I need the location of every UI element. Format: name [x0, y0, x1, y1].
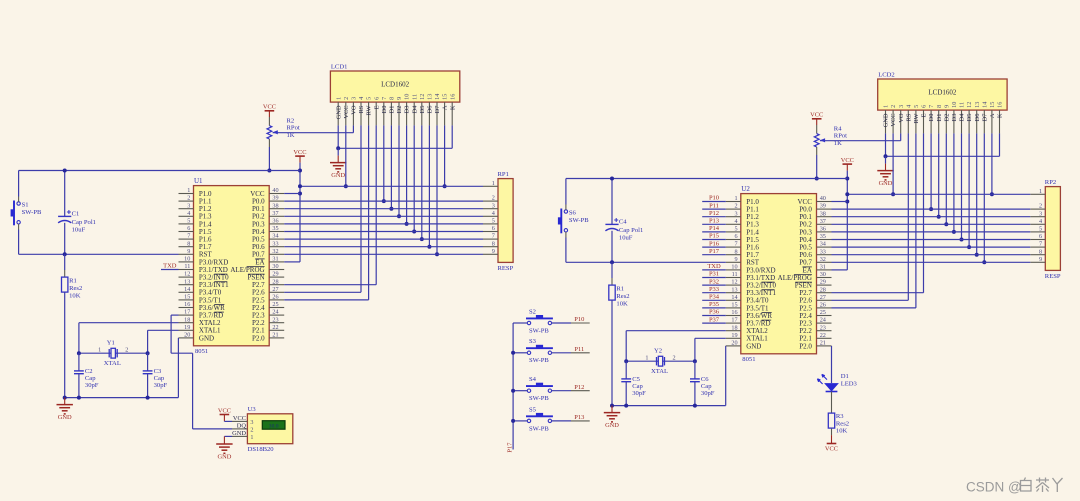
- U2 pin 8 P1.7: [726, 248, 760, 259]
- net label P10 on S2: [552, 316, 590, 323]
- U1 pin 26 P2.5: [252, 294, 284, 305]
- svg-text:16: 16: [449, 94, 456, 100]
- junction column S4: [511, 389, 515, 393]
- svg-text:Cap Pol1: Cap Pol1: [619, 227, 643, 234]
- svg-text:3: 3: [492, 202, 495, 209]
- LCD2 pin 4 RS: [905, 105, 912, 134]
- LED D1 LED3: [817, 373, 857, 392]
- wire VCC to pin 40: [832, 201, 848, 203]
- svg-text:U3: U3: [248, 406, 257, 413]
- wire R2 bottom to rail: [268, 147, 270, 171]
- U2 pin 26 P2.5: [799, 302, 831, 313]
- junction vcc column / top rail: [298, 169, 302, 173]
- junction D1/P0.1: [937, 215, 941, 219]
- junction D4/P0.4: [960, 238, 964, 242]
- svg-text:17: 17: [184, 309, 190, 316]
- svg-text:26: 26: [820, 302, 826, 309]
- wire LCD backlight K pin16 column: [999, 133, 1001, 156]
- net label P13 on S5: [552, 414, 590, 421]
- svg-text:GND: GND: [605, 422, 619, 429]
- svg-text:3: 3: [351, 97, 358, 100]
- resistor R1 Res2 10K: [609, 262, 630, 307]
- junction D2/P0.2: [397, 214, 401, 218]
- U1 pin 15 P3.5/T1: [179, 294, 222, 305]
- RP2 pin 3: [1030, 210, 1045, 217]
- svg-text:25: 25: [272, 301, 278, 308]
- U1 pin 19 XTAL1: [179, 324, 222, 335]
- svg-text:3: 3: [1039, 210, 1042, 217]
- junction D4/P0.4: [412, 230, 416, 234]
- U1 pin 29 PSEN: [247, 271, 284, 282]
- svg-text:VCC: VCC: [890, 114, 897, 127]
- svg-text:15: 15: [184, 294, 190, 301]
- svg-text:R3: R3: [836, 413, 844, 420]
- wire reset rail: [566, 261, 726, 263]
- junction vcc column / rp rail: [845, 192, 849, 196]
- svg-text:TXD: TXD: [707, 263, 721, 270]
- potentiometer R2 RPot 1K: [267, 117, 300, 147]
- U2 pin 4 P1.3: [726, 218, 760, 229]
- U2 pin 15 P3.5/T1: [726, 302, 769, 313]
- svg-text:GND: GND: [746, 342, 761, 350]
- svg-text:1K: 1K: [287, 132, 295, 139]
- svg-text:36: 36: [820, 226, 826, 233]
- junction vcc column / pin40: [845, 200, 849, 204]
- RP2 pin 7: [1030, 241, 1045, 248]
- svg-text:8: 8: [389, 97, 396, 100]
- svg-text:34: 34: [272, 233, 278, 240]
- svg-text:RW: RW: [913, 113, 920, 124]
- svg-text:7: 7: [928, 105, 935, 108]
- svg-text:7: 7: [381, 97, 388, 100]
- wire LCD A pin15 column: [991, 133, 993, 194]
- svg-text:E: E: [921, 113, 928, 117]
- junction D3/P0.3: [952, 230, 956, 234]
- crystal Y1 XTAL: [98, 340, 128, 367]
- U2 pin 39 P0.0: [799, 203, 831, 214]
- wire LCD D5 column: [421, 125, 423, 239]
- U1 pin 36 P0.3: [252, 218, 284, 229]
- net label TXD on U2 pin 10: [702, 263, 726, 270]
- svg-text:20: 20: [731, 340, 737, 347]
- svg-text:24: 24: [820, 317, 826, 324]
- junction ground rail left: [610, 404, 614, 408]
- wire column to S2: [513, 322, 527, 324]
- svg-text:30pF: 30pF: [154, 382, 168, 389]
- net label P32 on U2 pin 12: [702, 278, 726, 285]
- svg-text:RESP: RESP: [498, 265, 514, 272]
- svg-text:Y2: Y2: [654, 348, 662, 355]
- svg-text:12: 12: [966, 102, 973, 108]
- svg-text:5: 5: [913, 105, 920, 108]
- junction at LCD GND column: [336, 146, 340, 150]
- svg-text:12: 12: [731, 279, 737, 286]
- svg-text:4: 4: [187, 210, 190, 217]
- junction crystal right: [146, 351, 150, 355]
- net label P34 on U2 pin 14: [702, 294, 726, 301]
- U1 pin 7 P1.6: [179, 233, 213, 244]
- svg-text:34: 34: [820, 241, 826, 248]
- svg-text:U1: U1: [194, 177, 203, 185]
- switch S5 SW-PB: [526, 406, 553, 432]
- svg-text:21: 21: [272, 332, 278, 339]
- U3 pin 2 DQ: [232, 422, 253, 433]
- svg-text:2: 2: [250, 426, 253, 433]
- U2 pin 29 PSEN: [795, 279, 832, 290]
- svg-text:C4: C4: [619, 219, 627, 226]
- svg-text:D1: D1: [841, 373, 849, 380]
- wire LCD D1 column: [938, 133, 940, 216]
- wire P0.6 row to resistor pack: [832, 254, 1031, 256]
- RP2 pin 5: [1030, 226, 1045, 233]
- junction cap B / ground rail: [693, 404, 697, 408]
- svg-text:16: 16: [731, 309, 737, 316]
- svg-text:6: 6: [187, 225, 190, 232]
- junction cap B / ground rail: [146, 396, 150, 400]
- svg-text:1: 1: [645, 355, 648, 362]
- wire LCD RS pin4 column to P2.6: [360, 125, 362, 292]
- RP2 pin 9: [1030, 256, 1045, 263]
- U2 pin 34 P0.5: [799, 241, 831, 252]
- potentiometer R4 RPot 1K: [814, 125, 847, 155]
- LCD2 pin 14 D7: [981, 102, 988, 134]
- junction VCC column / rail: [344, 184, 348, 188]
- net label P36 on U2 pin 16: [702, 309, 726, 316]
- svg-text:25: 25: [820, 309, 826, 316]
- svg-text:P13: P13: [709, 218, 719, 225]
- svg-text:1K: 1K: [834, 140, 842, 147]
- junction cap/reset rail: [63, 252, 67, 256]
- svg-text:R4: R4: [834, 126, 842, 133]
- svg-text:D6: D6: [427, 106, 434, 114]
- U1 pin 1 P1.0: [179, 187, 213, 198]
- wire LCD RW pin5 column to P2.5: [368, 125, 370, 300]
- svg-text:D3: D3: [951, 114, 958, 122]
- U2 pin 1 P1.0: [726, 195, 760, 206]
- svg-text:4: 4: [1039, 218, 1042, 225]
- wire LCD D4 column: [961, 133, 963, 239]
- svg-text:8: 8: [936, 105, 943, 108]
- svg-text:23: 23: [272, 316, 278, 323]
- op-amp-style MCU U2 8051: [741, 185, 817, 363]
- svg-text:40: 40: [820, 195, 826, 202]
- svg-text:10: 10: [404, 94, 411, 100]
- U1 pin 21 P2.0: [252, 332, 284, 343]
- wire VCC column: [299, 171, 301, 262]
- U2 pin 10 P3.0/RXD: [726, 264, 776, 275]
- U1 pin 20 GND: [179, 332, 215, 343]
- svg-text:C3: C3: [154, 368, 162, 375]
- U1 pin 2 P1.1: [179, 195, 213, 206]
- svg-text:13: 13: [184, 278, 190, 285]
- U1 pin 30 ALE/PROG: [230, 263, 284, 274]
- svg-text:30pF: 30pF: [632, 390, 646, 397]
- svg-text:LCD1602: LCD1602: [381, 81, 410, 89]
- U2 pin 6 P1.5: [726, 233, 760, 244]
- temperature sensor U3 DS18B20: [247, 406, 292, 453]
- U3 pin 3 VCC: [232, 415, 253, 426]
- wire VCC rail to resistor pack pin1: [847, 193, 1030, 195]
- svg-text:S6: S6: [569, 209, 577, 216]
- svg-text:23: 23: [820, 324, 826, 331]
- svg-text:8051: 8051: [742, 356, 755, 363]
- net label P35 on U2 pin 15: [702, 301, 726, 308]
- wire P0.1 row to resistor pack: [832, 216, 1031, 218]
- svg-text:3: 3: [898, 105, 905, 108]
- LCD1 pin 2 VCC: [343, 97, 350, 126]
- svg-text:10K: 10K: [616, 300, 628, 307]
- svg-text:P15: P15: [709, 233, 719, 240]
- net label P33 on U2 pin 13: [702, 286, 726, 293]
- svg-text:29: 29: [820, 279, 826, 286]
- LCD1 pin 1 GND: [335, 97, 342, 126]
- junction D1/P0.1: [389, 207, 393, 211]
- wire VO to potentiometer wiper: [820, 140, 901, 142]
- wire column to S3: [513, 352, 527, 354]
- svg-text:1: 1: [1039, 188, 1042, 195]
- LCD2 pin 11 D4: [959, 102, 966, 133]
- U2 pin 5 P1.4: [726, 226, 760, 237]
- svg-text:11: 11: [184, 263, 190, 270]
- svg-text:RP2: RP2: [1045, 179, 1056, 186]
- svg-text:39: 39: [820, 203, 826, 210]
- RP1 pin 6: [483, 225, 498, 232]
- svg-text:S3: S3: [529, 338, 537, 345]
- ground symbol for U3: [216, 436, 232, 460]
- svg-text:1: 1: [735, 195, 738, 202]
- svg-text:11: 11: [959, 102, 966, 108]
- svg-text:K: K: [997, 113, 1004, 118]
- LCD1 pin 10 D3: [404, 94, 411, 126]
- LCD1 pin 12 D5: [419, 94, 426, 126]
- svg-text:18: 18: [731, 324, 737, 331]
- U1 pin 8 P1.7: [179, 240, 213, 251]
- junction at LCD GND column: [884, 154, 888, 158]
- svg-text:8: 8: [492, 240, 495, 247]
- wire P0.3 row to resistor pack: [284, 223, 483, 225]
- power VCC above R4: [816, 119, 818, 125]
- U2 pin 36 P0.3: [799, 226, 831, 237]
- svg-text:GND: GND: [883, 113, 890, 127]
- switch S4 SW-PB: [526, 376, 553, 402]
- svg-text:D1: D1: [936, 114, 943, 122]
- LCD1 pin 4 RS: [358, 97, 365, 126]
- LCD1 pin 7 D0: [381, 97, 388, 126]
- svg-text:5: 5: [492, 218, 495, 225]
- svg-text:30.0: 30.0: [269, 423, 279, 429]
- U2 pin 40 VCC: [797, 195, 831, 206]
- wire LCD D0 column: [930, 133, 932, 209]
- svg-text:32: 32: [820, 256, 826, 263]
- U2 pin 28 P2.7: [799, 286, 831, 297]
- capacitor C5 Cap 30pF: [621, 361, 646, 405]
- svg-text:9: 9: [1039, 256, 1042, 263]
- svg-text:10uF: 10uF: [72, 227, 86, 234]
- svg-text:6: 6: [492, 225, 495, 232]
- LCD2 pin 16 K: [997, 102, 1004, 134]
- svg-text:C1: C1: [72, 211, 80, 218]
- svg-text:24: 24: [272, 309, 278, 316]
- svg-text:4: 4: [358, 97, 365, 100]
- net label P14 on U2 pin 5: [702, 225, 726, 232]
- U1 pin 28 P2.7: [252, 278, 284, 289]
- svg-text:19: 19: [731, 332, 737, 339]
- U1 pin 22 P2.1: [252, 324, 284, 335]
- wire P0.4 row to resistor pack: [284, 231, 483, 233]
- wire XTAL2 to crystal rail: [79, 322, 179, 324]
- junction A column / rail: [443, 184, 447, 188]
- wire rail to S6: [565, 179, 567, 205]
- U2 pin 25 P2.4: [799, 309, 831, 320]
- U1 pin 17 P3.7/RD: [179, 309, 224, 320]
- switch S3 SW-PB: [526, 338, 553, 364]
- svg-text:10uF: 10uF: [619, 235, 633, 242]
- U2 pin 12 P3.2/INT0: [726, 279, 777, 290]
- wire P2.0 to LED: [831, 346, 833, 383]
- wire ground rail: [65, 397, 179, 399]
- U1 pin 23 P2.2: [252, 316, 284, 327]
- svg-text:7: 7: [492, 233, 495, 240]
- svg-text:P36: P36: [709, 309, 720, 316]
- svg-text:4: 4: [905, 105, 912, 108]
- resistor pack RP2 RESP: [1045, 179, 1061, 280]
- svg-text:R1: R1: [616, 286, 624, 293]
- LCD module LCD2 LCD1602: [878, 72, 1007, 111]
- svg-text:RS: RS: [905, 113, 912, 121]
- svg-text:E: E: [373, 105, 380, 109]
- wire ground rail: [612, 405, 726, 407]
- wire crystal rail: [79, 352, 148, 354]
- LCD1 pin 3 VO: [351, 97, 358, 126]
- wire S6 to reset rail: [565, 232, 567, 238]
- svg-text:GND: GND: [58, 414, 72, 421]
- svg-text:9: 9: [735, 256, 738, 263]
- wire P0.5 row to resistor pack: [284, 238, 483, 240]
- svg-text:20: 20: [184, 332, 190, 339]
- svg-text:SW-PB: SW-PB: [529, 357, 549, 364]
- svg-text:40: 40: [272, 187, 278, 194]
- LCD1 pin 8 D1: [389, 97, 396, 126]
- svg-text:9: 9: [396, 97, 403, 100]
- svg-text:2: 2: [125, 347, 128, 354]
- junction cap/reset rail: [610, 260, 614, 264]
- svg-text:D5: D5: [966, 114, 973, 122]
- svg-text:17: 17: [731, 317, 737, 324]
- junction cap/top rail: [610, 177, 614, 181]
- svg-text:8: 8: [187, 240, 190, 247]
- U2 pin 35 P0.4: [799, 233, 831, 244]
- svg-text:9: 9: [943, 105, 950, 108]
- svg-text:14: 14: [434, 94, 441, 100]
- svg-text:D1: D1: [389, 106, 396, 114]
- U1 pin 6 P1.5: [179, 225, 213, 236]
- svg-text:4: 4: [492, 210, 495, 217]
- LCD2 pin 10 D3: [951, 102, 958, 134]
- svg-text:VCC: VCC: [218, 407, 231, 414]
- wire LCD VO pin3 column: [352, 125, 354, 132]
- wire key common column P17: [512, 323, 514, 450]
- wire P0.5 row to resistor pack: [832, 246, 1031, 248]
- svg-text:C5: C5: [632, 376, 640, 383]
- wire GND pin20 column: [177, 337, 179, 339]
- svg-text:5: 5: [735, 226, 738, 233]
- svg-text:D4: D4: [959, 113, 966, 122]
- power VCC above R2: [268, 111, 270, 117]
- svg-text:VCC: VCC: [343, 106, 350, 119]
- net label P12 on U2 pin 3: [702, 210, 726, 217]
- wire R4 bottom to rail: [816, 155, 818, 179]
- U2 pin 38 P0.1: [799, 210, 831, 221]
- svg-text:P32: P32: [709, 278, 719, 285]
- junction A column / rail: [990, 192, 994, 196]
- U2 pin 18 XTAL2: [726, 324, 769, 335]
- wire rail to S1: [18, 171, 20, 197]
- svg-text:30pF: 30pF: [701, 390, 715, 397]
- wire LCD D5 column: [968, 133, 970, 247]
- junction cap/top rail: [63, 169, 67, 173]
- U1 pin 38 P0.1: [252, 202, 284, 213]
- svg-text:P10: P10: [574, 316, 584, 323]
- LCD1 pin 11 D4: [411, 94, 418, 125]
- svg-text:10K: 10K: [836, 428, 848, 435]
- wire P0.2 row to resistor pack: [832, 223, 1031, 225]
- junction vcc column / top rail: [845, 177, 849, 181]
- wire P0.2 row to resistor pack: [284, 215, 483, 217]
- resistor R1 Res2 10K: [62, 254, 83, 299]
- svg-text:13: 13: [974, 102, 981, 108]
- U1 pin 3 P1.2: [179, 202, 213, 213]
- svg-text:4: 4: [735, 218, 738, 225]
- LCD1 pin 15 A: [442, 94, 449, 126]
- svg-text:27: 27: [820, 294, 826, 301]
- svg-text:VCC: VCC: [810, 112, 823, 119]
- svg-text:GND: GND: [232, 430, 246, 437]
- wire VCC rail to resistor pack pin1: [300, 185, 483, 187]
- wire GND pin20 column: [725, 345, 727, 347]
- svg-text:30: 30: [820, 271, 826, 278]
- wire LCD GND pin1 column: [885, 133, 887, 156]
- wire resistor to ground rail: [611, 300, 613, 406]
- capacitor C6 Cap 30pF: [690, 361, 715, 405]
- wire XTAL1 to crystal rail: [695, 337, 726, 339]
- RP2 pin 2: [1030, 203, 1045, 210]
- svg-text:15: 15: [442, 94, 449, 100]
- svg-text:RPot: RPot: [287, 125, 300, 132]
- wire P0.4 row to resistor pack: [832, 239, 1031, 241]
- svg-text:D7: D7: [981, 113, 988, 122]
- RP2 pin 8: [1030, 248, 1045, 255]
- svg-text:8051: 8051: [195, 348, 208, 355]
- wire P0.1 row to resistor pack: [284, 208, 483, 210]
- RP1 pin 2: [483, 195, 498, 202]
- svg-text:11: 11: [411, 94, 418, 100]
- U2 pin 7 P1.6: [726, 241, 760, 252]
- net label P31 on U2 pin 11: [702, 271, 726, 278]
- svg-text:2: 2: [890, 105, 897, 108]
- LCD2 pin 2 VCC: [890, 105, 897, 134]
- U2 pin 13 P3.3/INT1: [726, 286, 777, 297]
- svg-text:A: A: [442, 105, 449, 110]
- svg-text:38: 38: [820, 210, 826, 217]
- svg-text:6: 6: [1039, 233, 1042, 240]
- switch S6 SW-PB: [558, 209, 589, 234]
- svg-text:P35: P35: [709, 301, 719, 308]
- power VCC below R3: [831, 429, 833, 436]
- U2 pin 11 P3.1/TXD: [726, 271, 775, 282]
- svg-text:10: 10: [184, 256, 190, 263]
- svg-text:Y1: Y1: [107, 340, 115, 347]
- RP2 pin 6: [1030, 233, 1045, 240]
